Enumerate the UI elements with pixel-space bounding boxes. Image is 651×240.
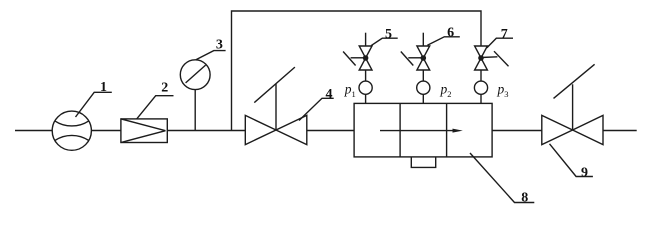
- valve 5 lever: [351, 57, 366, 59]
- svg-text:5: 5: [385, 27, 392, 42]
- leader for label 4: [299, 98, 334, 120]
- wire box 8 to valve 9: [492, 130, 542, 132]
- valve 4 left triangle: [245, 115, 276, 144]
- valve 6 upper triangle: [417, 46, 430, 58]
- valve 9 right triangle: [573, 115, 603, 144]
- svg-text:p2: p2: [440, 82, 452, 100]
- valve 7 center dot: [478, 55, 484, 61]
- pressure gauge 3 stem to main pipe: [194, 90, 196, 131]
- wire valve 7 to gauge circle p3: [480, 70, 482, 81]
- valve 7 slash: [494, 51, 509, 66]
- valve 7 lower triangle: [475, 58, 488, 70]
- wire filter to valve 4 (through gauge tap and bypass tap): [167, 130, 245, 132]
- meter box 8 right divider: [446, 103, 448, 156]
- wire valve 4 to box 8: [307, 130, 354, 132]
- leader for label 8: [470, 153, 534, 203]
- filter 2 internal triangle lower line: [121, 131, 166, 143]
- valve 6 lower triangle: [417, 58, 430, 70]
- pressure tap circle p1: [359, 81, 372, 94]
- svg-text:4: 4: [326, 87, 333, 102]
- flow meter 1 bottom arc: [55, 135, 89, 140]
- valve 6 stem above: [422, 33, 424, 46]
- svg-text:6: 6: [447, 26, 454, 41]
- valve 7 lever: [481, 56, 497, 59]
- svg-text:1: 1: [100, 80, 107, 95]
- leader for label 7: [487, 38, 513, 48]
- valve 6 lever: [408, 57, 423, 59]
- valve 5 upper triangle: [359, 46, 372, 58]
- valve 4 handle diagonal: [254, 67, 295, 103]
- meter box 8 flow arrow shaft: [380, 130, 454, 132]
- wire bypass line: up from main pipe, across top, down to valve 7: [232, 11, 482, 131]
- valve 9 left triangle: [542, 115, 573, 144]
- wire valve 9 to right end: [603, 130, 637, 132]
- svg-text:2: 2: [161, 81, 168, 96]
- leader for label 3: [196, 51, 226, 60]
- wire valve 5 to gauge circle p1: [365, 70, 367, 81]
- pressure gauge 3 needle: [186, 65, 206, 83]
- valve 6 slash: [401, 52, 414, 66]
- leader for label 2: [137, 96, 174, 119]
- filter 2 internal triangle upper line: [121, 119, 166, 131]
- valve 4 right triangle: [276, 115, 307, 144]
- pressure tap circle p3: [474, 81, 487, 94]
- pressure tap circle p2: [417, 81, 430, 94]
- meter box 8 flow arrow head: [453, 129, 463, 133]
- valve 5 lower triangle: [359, 58, 372, 70]
- svg-text:8: 8: [521, 191, 528, 206]
- wire circle p1 to box 8: [365, 94, 367, 103]
- leader for label 6: [427, 37, 459, 46]
- valve 9 handle diagonal: [554, 64, 595, 98]
- meter box 8 left divider: [399, 103, 401, 156]
- flow meter 1 top arc: [55, 121, 89, 126]
- pressure gauge 3 dial circle: [180, 60, 210, 90]
- wire circle p2 to box 8: [422, 94, 424, 103]
- valve 7 upper triangle: [475, 46, 488, 58]
- valve 9 stem: [572, 84, 574, 130]
- svg-text:3: 3: [216, 38, 223, 53]
- wire main pipe segment left end to flow meter: [15, 130, 52, 132]
- svg-text:9: 9: [581, 165, 588, 180]
- valve 4 stem: [275, 84, 277, 130]
- wire flow meter to filter: [91, 130, 121, 132]
- meter box 8 outline: [354, 103, 492, 156]
- leader for label 9: [550, 144, 593, 177]
- valve 5 stem above: [365, 33, 367, 46]
- leader for label 5: [371, 38, 398, 45]
- svg-text:p1: p1: [344, 82, 356, 100]
- svg-text:p3: p3: [497, 82, 509, 100]
- valve 5 slash: [343, 52, 356, 66]
- flow meter 1 body circle: [52, 111, 91, 150]
- svg-text:7: 7: [501, 27, 508, 42]
- leader for label 1: [76, 92, 112, 117]
- meter box 8 bottom tab: [411, 157, 435, 167]
- valve 5 center dot: [363, 55, 369, 61]
- valve 6 center dot: [421, 55, 427, 61]
- wire valve 6 to gauge circle p2: [422, 70, 424, 81]
- filter 2 body rectangle: [121, 119, 167, 143]
- wire circle p3 to box 8: [480, 94, 482, 103]
